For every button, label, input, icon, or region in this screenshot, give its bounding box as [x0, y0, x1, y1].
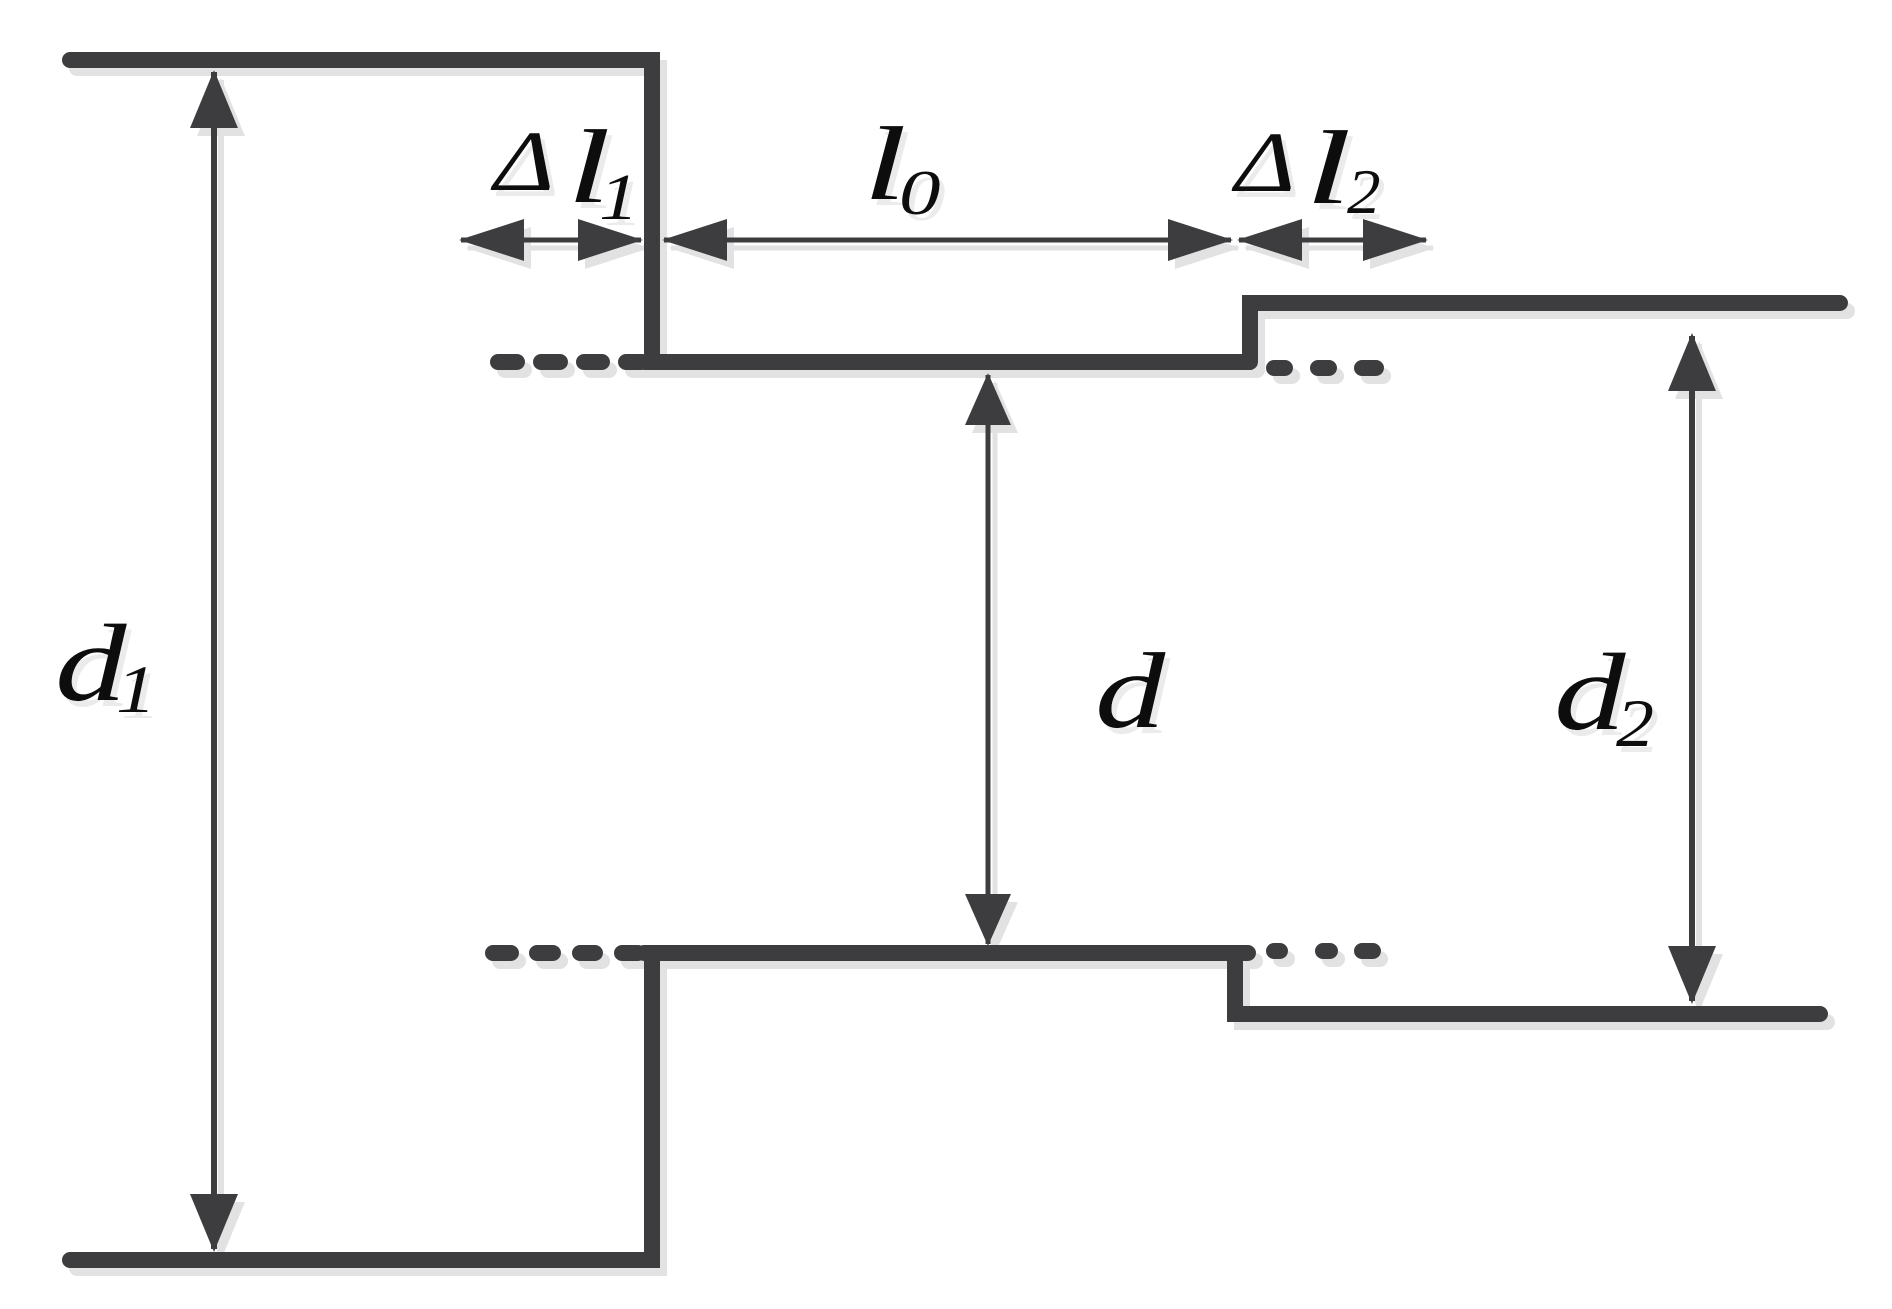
bore bottom line (solid)	[644, 945, 1248, 961]
bottom line of large-diameter section with lower-left step vertical	[70, 953, 652, 1260]
Δl1 left arrowhead	[459, 219, 524, 261]
svg-text:2: 2	[1347, 157, 1381, 227]
svg-text:Δ: Δ	[490, 113, 555, 209]
svg-text:0: 0	[899, 158, 941, 229]
svg-text:d: d	[1095, 631, 1166, 751]
svg-text:l: l	[1305, 110, 1352, 226]
d2 bottom arrowhead	[1668, 946, 1716, 1004]
l0 right arrowhead	[1168, 219, 1233, 261]
svg-text:1: 1	[116, 653, 156, 728]
bore top hidden line dashes (right)	[1274, 360, 1376, 376]
d2 top arrowhead	[1668, 333, 1716, 391]
svg-text:Δ: Δ	[1231, 114, 1296, 210]
Δl2 right arrowhead	[1363, 219, 1428, 261]
l0 left arrowhead	[662, 219, 727, 261]
dimension Δl2 shaft	[1239, 238, 1426, 243]
lower-right step vertical and bottom line of small-diameter section	[1235, 953, 1820, 1014]
dimension Δl1 shaft	[461, 238, 641, 243]
dimension l0 shaft	[664, 238, 1231, 243]
svg-text:2: 2	[1616, 686, 1654, 761]
svg-text:1: 1	[599, 160, 639, 233]
upper-right step vertical and top line of small-diameter section	[1250, 303, 1840, 362]
dimension d shaft	[986, 375, 991, 944]
bore bottom hidden line dashes (right)	[1274, 943, 1373, 959]
bore top hidden line dashes (left)	[498, 354, 642, 370]
bore bottom hidden line dashes (left)	[493, 945, 638, 961]
d bottom arrowhead	[965, 894, 1011, 946]
d1 bottom arrowhead	[190, 1194, 238, 1252]
top line of large-diameter section with left step vertical	[70, 60, 652, 362]
d top arrowhead	[965, 373, 1011, 425]
bore top line (solid)	[644, 354, 1252, 370]
dimension d1 shaft	[211, 72, 217, 1249]
dimension d2 shaft	[1689, 336, 1695, 1001]
Δl2 left arrowhead	[1237, 219, 1302, 261]
Δl1 right arrowhead	[578, 219, 643, 261]
d1 top arrowhead	[190, 70, 238, 128]
